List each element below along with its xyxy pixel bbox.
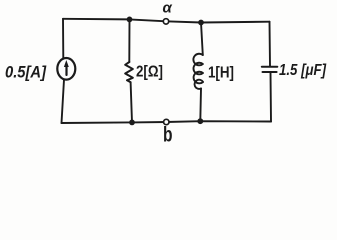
terminal a (open circle) — [163, 19, 168, 24]
svg-text:1[H]: 1[H] — [208, 65, 234, 82]
current source arrow — [64, 60, 69, 76]
wire top — [63, 19, 270, 23]
wire bottom — [62, 121, 272, 123]
wire resistor-bottom — [131, 82, 132, 122]
terminal b (open circle) — [164, 119, 169, 124]
junction dot bottom-right — [197, 118, 203, 124]
wire inductor-bottom — [199, 89, 202, 122]
junction dot top-right — [198, 20, 204, 26]
junction dot top-left — [127, 17, 133, 23]
resistor R 2-ohm zigzag — [125, 62, 133, 82]
svg-text:2[Ω]: 2[Ω] — [136, 64, 163, 81]
capacitor C plate bottom — [263, 71, 277, 73]
wire capacitor-bottom — [270, 73, 273, 122]
inductor L 1-H coil — [193, 54, 203, 89]
capacitor C plate top — [262, 66, 278, 68]
wire left-bottom — [62, 80, 65, 123]
svg-text:α: α — [163, 0, 173, 17]
wire resistor-top — [128, 19, 130, 62]
junction dot bottom-left — [129, 120, 135, 126]
svg-text:1.5 [μF]: 1.5 [μF] — [279, 62, 327, 79]
wire left-top — [62, 19, 64, 59]
svg-text:b: b — [163, 124, 173, 147]
svg-text:0.5[A]: 0.5[A] — [5, 63, 47, 82]
wire capacitor-top — [269, 22, 272, 67]
current source I1 circle — [57, 58, 75, 80]
wire inductor-top — [201, 23, 203, 56]
